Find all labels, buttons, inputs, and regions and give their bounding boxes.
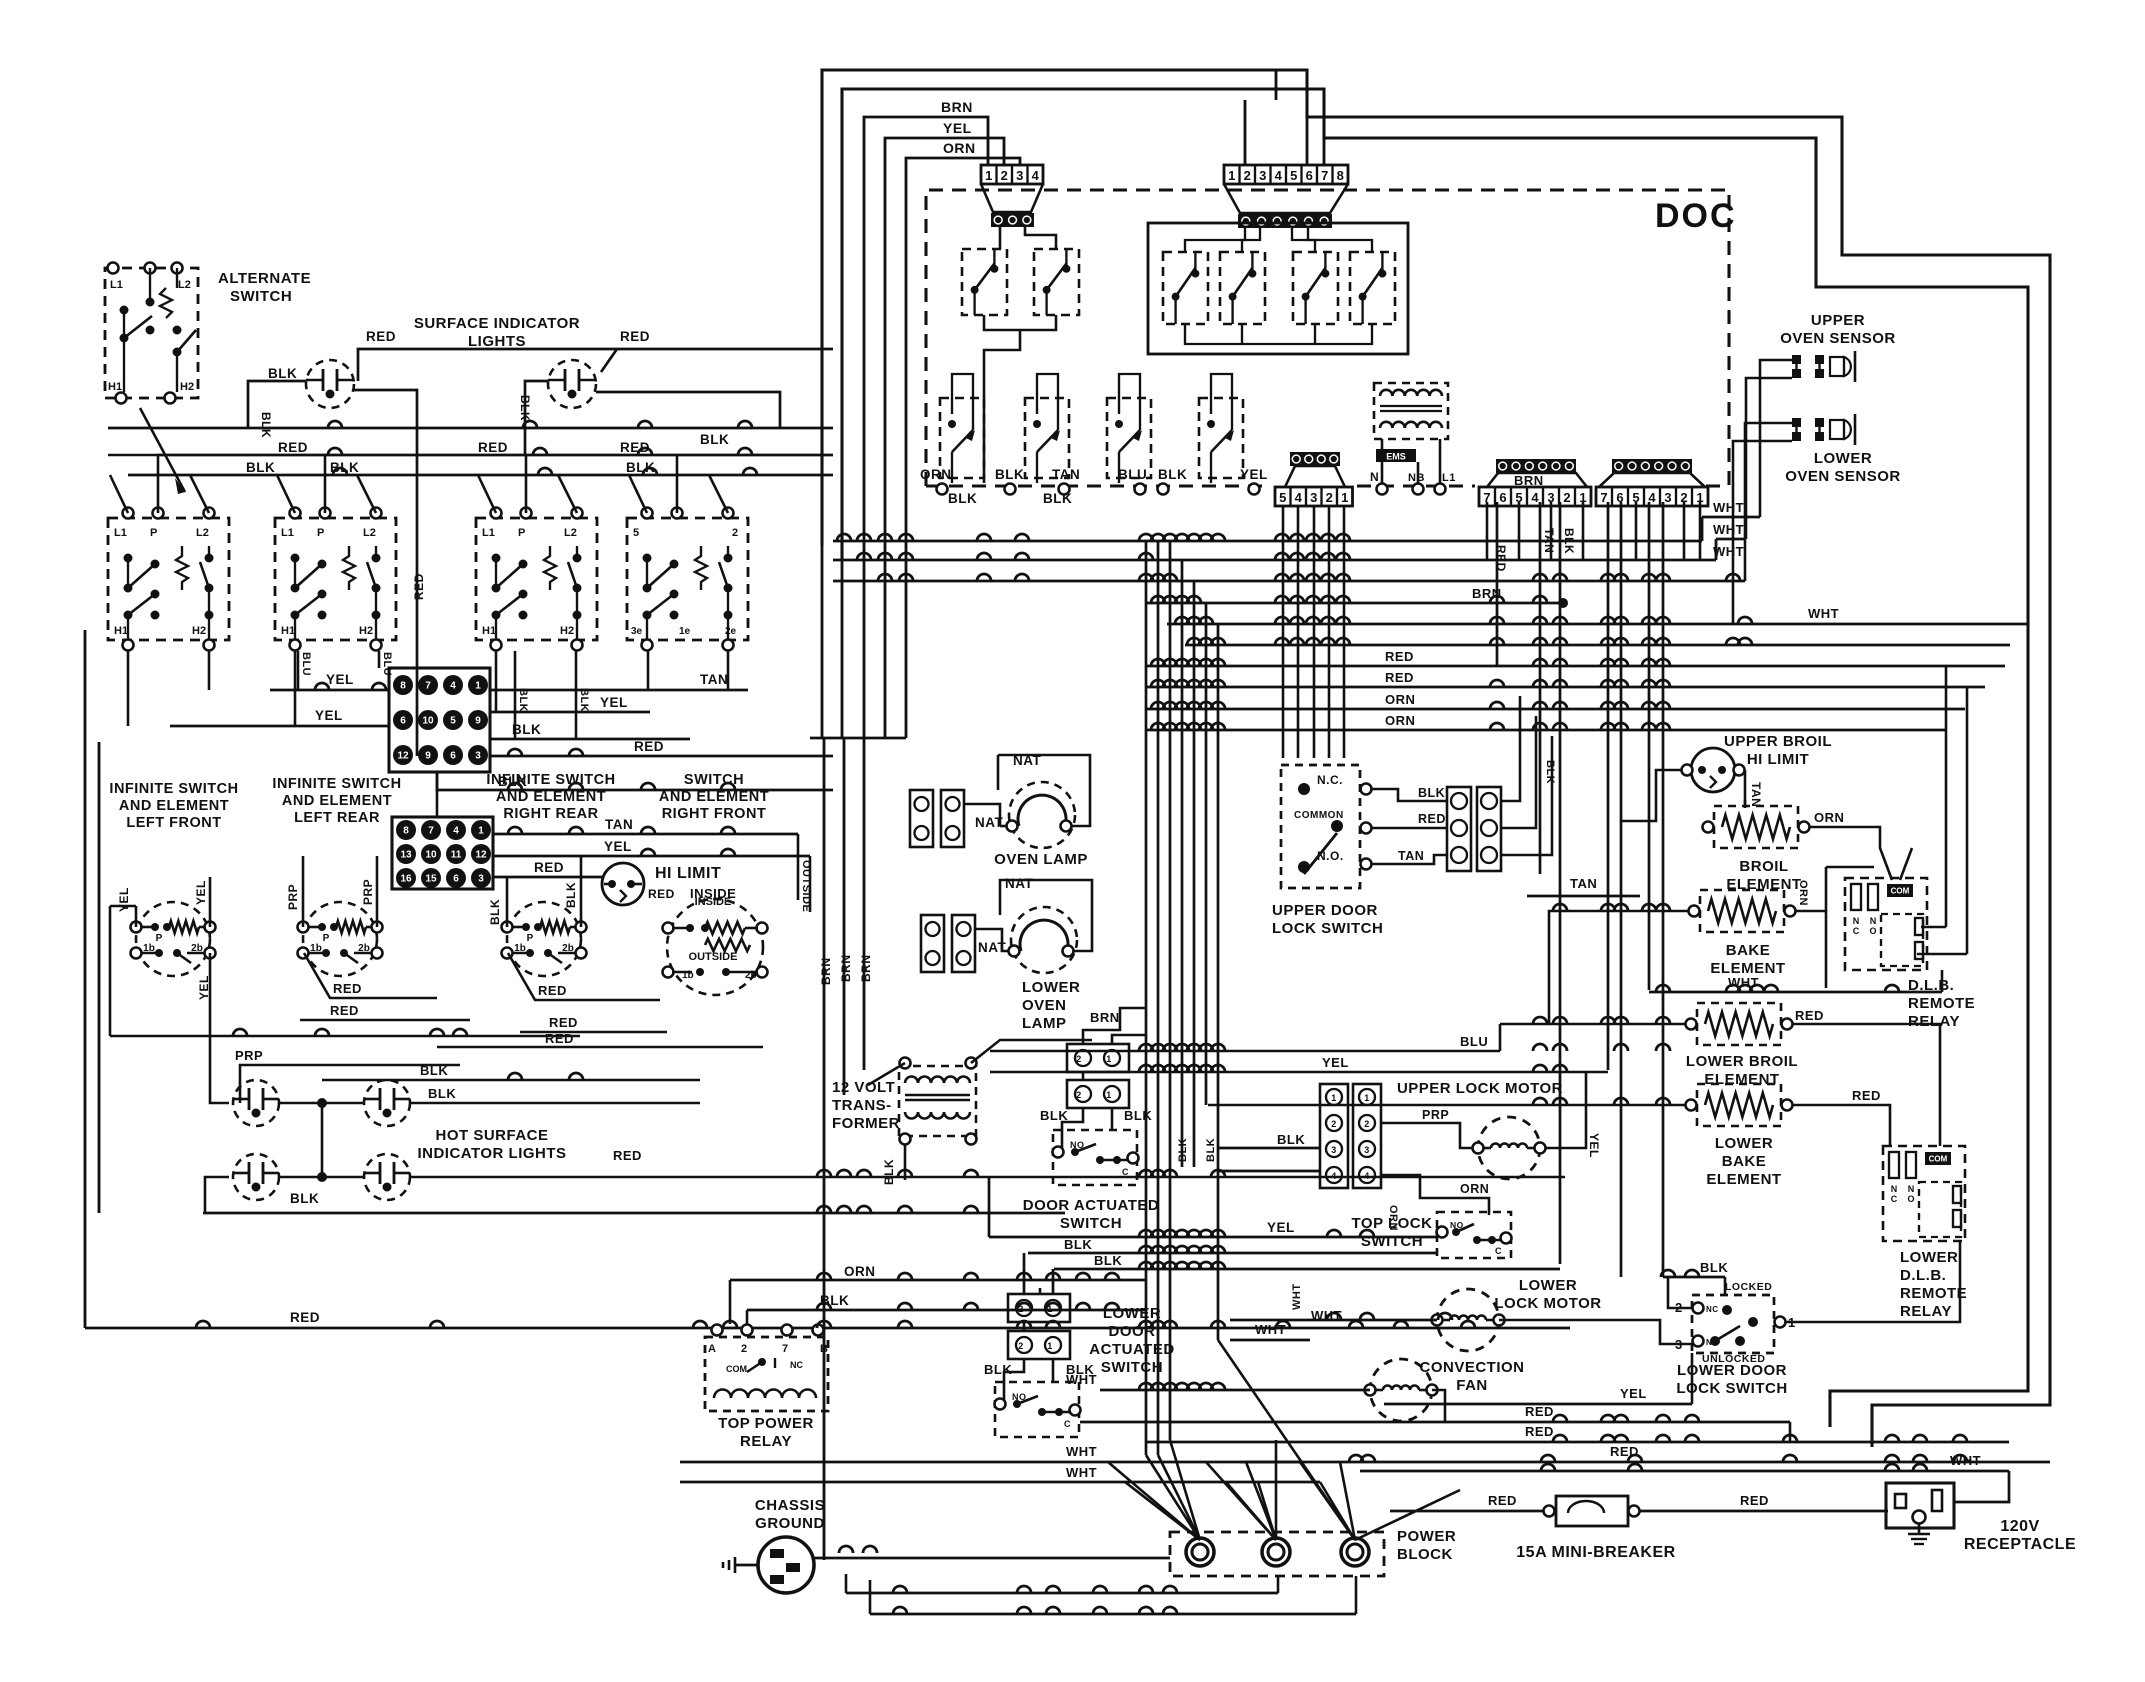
arrow from alternate switch	[140, 408, 185, 492]
svg-text:COMMON: COMMON	[1294, 810, 1344, 821]
svg-text:BLK: BLK	[1177, 1138, 1189, 1162]
wire ORN bus 2	[1146, 729, 1945, 732]
svg-text:RED: RED	[545, 1031, 574, 1046]
svg-text:INDICATOR LIGHTS: INDICATOR LIGHTS	[417, 1145, 566, 1162]
wire RED bus 2	[1146, 686, 1985, 689]
svg-text:RED: RED	[648, 887, 675, 901]
svg-text:LOWER: LOWER	[1814, 450, 1872, 467]
svg-text:LOCK MOTOR: LOCK MOTOR	[1494, 1295, 1601, 1312]
svg-text:LOCK SWITCH: LOCK SWITCH	[1272, 920, 1383, 937]
hi limit switch	[602, 863, 644, 905]
svg-text:ALTERNATE: ALTERNATE	[218, 270, 311, 287]
svg-text:7: 7	[1600, 490, 1607, 505]
svg-text:HI LIMIT: HI LIMIT	[655, 865, 721, 882]
svg-text:UPPER DOOR: UPPER DOOR	[1272, 902, 1378, 919]
surface indicator light 1	[306, 360, 354, 408]
svg-text:SWITCH: SWITCH	[230, 288, 292, 305]
svg-text:BLK: BLK	[1094, 1253, 1122, 1268]
svg-text:N: N	[1891, 1184, 1898, 1194]
hot surface light 2	[364, 1080, 410, 1126]
quick connect block upper	[389, 668, 490, 772]
svg-text:L2: L2	[564, 527, 577, 539]
svg-text:NO: NO	[1070, 1140, 1085, 1150]
alternate switch dashed box	[105, 268, 198, 398]
svg-text:1: 1	[1106, 1090, 1112, 1100]
wire BRN risers	[823, 738, 826, 1560]
svg-text:BLK: BLK	[290, 1191, 319, 1206]
svg-text:1: 1	[1047, 1341, 1053, 1351]
wire RED under RR	[508, 953, 660, 1000]
svg-text:RIGHT REAR: RIGHT REAR	[503, 806, 598, 822]
wires transformer	[844, 1040, 905, 1058]
wire TAN top	[492, 833, 798, 836]
wire left edge drop	[108, 454, 157, 457]
upper lock motor	[1478, 1117, 1540, 1179]
wire PRP	[240, 1065, 460, 1103]
infinite switch left rear symbol	[303, 902, 377, 976]
svg-text:3: 3	[1364, 1145, 1370, 1155]
wires lower door lock switch	[1668, 1277, 1692, 1308]
svg-text:O: O	[1907, 1194, 1914, 1204]
svg-text:P: P	[527, 933, 534, 944]
svg-text:RED: RED	[538, 983, 567, 998]
wire BLK right	[490, 738, 690, 741]
svg-text:BLK: BLK	[420, 1063, 448, 1078]
svg-text:BRN: BRN	[819, 958, 833, 986]
svg-text:5: 5	[1279, 490, 1286, 505]
wire WHT 1340	[1230, 1339, 1830, 1341]
svg-text:3: 3	[1664, 490, 1671, 505]
wire BLK vertical	[1559, 502, 1562, 1264]
relay K5 in DOC	[1293, 252, 1338, 324]
svg-text:LEFT FRONT: LEFT FRONT	[126, 815, 221, 831]
svg-text:BLK: BLK	[1277, 1132, 1305, 1147]
svg-text:L1: L1	[482, 527, 495, 539]
svg-text:7: 7	[1321, 168, 1328, 183]
svg-text:BLK: BLK	[517, 688, 529, 712]
stub wires to switch terminals	[123, 508, 134, 519]
wire BRN riser from control	[864, 117, 988, 575]
svg-text:GROUND: GROUND	[755, 1515, 825, 1532]
svg-text:FORMER: FORMER	[832, 1115, 900, 1132]
wires top power relay	[717, 1294, 1146, 1324]
svg-text:1: 1	[478, 826, 484, 837]
svg-text:NO: NO	[1706, 1338, 1719, 1347]
svg-text:RED: RED	[613, 1148, 642, 1163]
svg-text:WHT: WHT	[1713, 522, 1744, 537]
svg-text:SWITCH: SWITCH	[1361, 1233, 1423, 1250]
dlb remote relay lower	[1883, 1146, 1965, 1241]
wire BLK bus 428	[108, 427, 833, 430]
svg-text:2: 2	[1001, 168, 1008, 183]
svg-text:TAN: TAN	[1749, 782, 1763, 807]
door actuated switch	[1053, 1130, 1137, 1185]
svg-text:BLK: BLK	[1064, 1237, 1092, 1252]
svg-text:WHT: WHT	[1066, 1465, 1097, 1480]
svg-text:2b: 2b	[745, 970, 757, 981]
vertical harness bundle center	[1145, 541, 1148, 1455]
svg-text:WHT: WHT	[1713, 500, 1744, 515]
svg-text:L1: L1	[110, 279, 123, 291]
svg-text:RED: RED	[634, 739, 664, 754]
svg-text:C: C	[1891, 1194, 1898, 1204]
svg-text:ELEMENT: ELEMENT	[1706, 1171, 1781, 1188]
svg-text:PRP: PRP	[235, 1048, 263, 1063]
svg-text:RIGHT FRONT: RIGHT FRONT	[662, 806, 767, 822]
svg-text:5: 5	[450, 716, 456, 727]
wire hops on buses	[837, 534, 851, 541]
relay K10 in DOC lower row	[1199, 398, 1243, 478]
svg-text:BLOCK: BLOCK	[1397, 1546, 1453, 1563]
svg-text:A: A	[708, 1343, 716, 1355]
svg-text:YEL: YEL	[1267, 1220, 1295, 1235]
svg-text:BRN: BRN	[839, 955, 853, 983]
svg-text:YEL: YEL	[1322, 1055, 1349, 1070]
svg-text:ORN: ORN	[1460, 1182, 1489, 1196]
connector P3 5-1	[1285, 466, 1345, 487]
svg-text:2: 2	[1563, 490, 1570, 505]
svg-text:2: 2	[732, 527, 738, 539]
svg-text:ORN: ORN	[1797, 880, 1809, 906]
wire OUTSIDE riser	[797, 834, 800, 900]
wire RED under LR	[304, 953, 437, 998]
12 volt transformer	[899, 1066, 976, 1136]
svg-text:BLK: BLK	[1562, 528, 1576, 554]
svg-text:TAN: TAN	[1570, 876, 1597, 891]
svg-text:CHASSIS: CHASSIS	[755, 1497, 825, 1514]
lower broil element	[1697, 1003, 1781, 1045]
svg-text:COM: COM	[1891, 887, 1910, 896]
wires door actuated switch	[1082, 1072, 1085, 1080]
svg-text:NAT: NAT	[1005, 876, 1033, 891]
svg-text:LAMP: LAMP	[1022, 1015, 1067, 1032]
svg-text:4: 4	[1531, 490, 1539, 505]
svg-text:P: P	[150, 527, 157, 539]
svg-text:2: 2	[1326, 490, 1333, 505]
wire YEL bus	[990, 1071, 1608, 1074]
wires chassis ground	[814, 1564, 1180, 1566]
svg-text:COM: COM	[726, 1364, 747, 1374]
svg-text:BROIL: BROIL	[1739, 858, 1788, 875]
svg-text:3: 3	[475, 751, 481, 762]
svg-text:8: 8	[400, 681, 406, 692]
svg-text:CONVECTION: CONVECTION	[1419, 1359, 1524, 1376]
svg-text:4: 4	[450, 681, 456, 692]
wires lower door actuated	[1023, 1322, 1026, 1331]
relay bank bottom links	[1185, 324, 1372, 344]
wire RED rows lower right	[1080, 1421, 1790, 1424]
lower oven sensor	[1792, 418, 1801, 427]
svg-text:BLK: BLK	[820, 1293, 849, 1308]
relay K2 in DOC	[1034, 249, 1079, 315]
svg-text:3: 3	[1675, 1337, 1683, 1352]
svg-text:H2: H2	[180, 381, 194, 393]
svg-text:L1: L1	[114, 527, 127, 539]
svg-text:BLU: BLU	[1118, 467, 1147, 482]
svg-text:N.C.: N.C.	[1317, 773, 1343, 787]
svg-text:BAKE: BAKE	[1722, 1153, 1767, 1170]
svg-text:H2: H2	[192, 625, 206, 637]
svg-text:UPPER LOCK MOTOR: UPPER LOCK MOTOR	[1397, 1080, 1563, 1097]
wires sensors to WHT	[1760, 360, 1792, 517]
svg-text:BLK: BLK	[518, 395, 532, 421]
wires lower lock motor	[1230, 1319, 1437, 1322]
wire WHT long bus	[1167, 623, 2028, 626]
svg-text:6: 6	[400, 716, 406, 727]
svg-text:RED: RED	[1494, 545, 1508, 572]
svg-text:DOOR: DOOR	[1109, 1323, 1156, 1340]
wire BLU bus	[990, 1050, 1691, 1052]
svg-text:RED: RED	[1488, 1493, 1517, 1508]
svg-text:6: 6	[453, 874, 459, 885]
ground stem	[735, 1564, 758, 1567]
svg-text:H1: H1	[482, 625, 496, 637]
svg-text:WHT: WHT	[1808, 606, 1839, 621]
wire fan into power block	[1108, 1462, 1200, 1540]
svg-text:ACTUATED: ACTUATED	[1089, 1341, 1174, 1358]
wire long bus 645	[1185, 644, 2010, 647]
svg-text:BLK: BLK	[512, 722, 541, 737]
svg-text:1: 1	[1331, 1093, 1337, 1103]
svg-text:WHT: WHT	[1713, 544, 1744, 559]
svg-text:OVEN: OVEN	[1022, 997, 1067, 1014]
wires lower broil	[1500, 1024, 1685, 1051]
svg-text:13: 13	[400, 850, 412, 861]
svg-text:1: 1	[1228, 168, 1235, 183]
svg-text:RELAY: RELAY	[1908, 1013, 1960, 1030]
svg-text:YEL: YEL	[117, 887, 131, 912]
wires strip2 up	[1501, 696, 1520, 801]
svg-text:BLU: BLU	[1460, 1034, 1488, 1049]
svg-text:UPPER: UPPER	[1811, 312, 1865, 329]
svg-text:4: 4	[1275, 168, 1283, 183]
wire BLU vertical 2	[378, 651, 381, 668]
svg-text:N: N	[1908, 1184, 1915, 1194]
lower bake element	[1697, 1084, 1781, 1126]
svg-text:RED: RED	[620, 329, 650, 344]
wire YEL bottom	[1384, 1403, 1692, 1406]
surface switch right front	[627, 518, 748, 640]
svg-text:UPPER BROIL: UPPER BROIL	[1724, 733, 1832, 750]
svg-text:WHT: WHT	[1255, 1322, 1286, 1337]
svg-text:4: 4	[453, 826, 459, 837]
svg-text:NB: NB	[1408, 472, 1425, 484]
svg-text:YEL: YEL	[600, 695, 628, 710]
svg-text:TAN: TAN	[605, 817, 633, 832]
svg-text:BLK: BLK	[700, 432, 729, 447]
svg-text:2: 2	[1244, 168, 1251, 183]
wires oven lamp	[1000, 825, 1006, 828]
svg-text:BLK: BLK	[1124, 1108, 1152, 1123]
stub wires from P4 P5 pins	[1486, 502, 1489, 560]
lower door actuated terminals	[1008, 1294, 1070, 1322]
svg-text:4: 4	[1032, 168, 1040, 183]
wire RED bus above switches	[157, 454, 833, 457]
svg-text:BLU: BLU	[300, 652, 312, 676]
svg-text:LOWER DOOR: LOWER DOOR	[1677, 1362, 1787, 1379]
svg-text:BLK: BLK	[268, 366, 297, 381]
wire WHT to receptacle	[1360, 1470, 2009, 1473]
svg-text:NC: NC	[1706, 1305, 1719, 1314]
relay bank box in DOC	[1148, 223, 1408, 354]
wire RED right bus	[437, 1046, 763, 1049]
svg-text:REMOTE: REMOTE	[1908, 995, 1975, 1012]
svg-text:SWITCH: SWITCH	[1101, 1359, 1163, 1376]
svg-text:TRANS-: TRANS-	[832, 1097, 892, 1114]
svg-text:OVEN LAMP: OVEN LAMP	[994, 851, 1088, 868]
svg-text:PRP: PRP	[361, 879, 375, 905]
wire BLK hot2	[409, 1102, 700, 1105]
svg-text:LOCKED: LOCKED	[1725, 1281, 1772, 1293]
wire ORN riser from control	[906, 158, 1020, 615]
svg-text:7: 7	[782, 1343, 789, 1355]
surface switch left front	[108, 518, 229, 640]
svg-text:5: 5	[1290, 168, 1297, 183]
svg-text:BLK: BLK	[1700, 1260, 1728, 1275]
svg-text:3: 3	[1331, 1145, 1337, 1155]
svg-text:BLK: BLK	[948, 491, 977, 506]
wire TAN vertical	[1539, 502, 1542, 874]
svg-text:H1: H1	[114, 625, 128, 637]
svg-text:L2: L2	[196, 527, 209, 539]
verticals from switch row to grid	[127, 651, 130, 726]
svg-text:NO: NO	[1450, 1220, 1464, 1230]
svg-text:LOWER: LOWER	[1715, 1135, 1773, 1152]
svg-text:BLK: BLK	[259, 412, 273, 438]
wire TAN	[490, 689, 748, 692]
svg-text:RELAY: RELAY	[1900, 1303, 1952, 1320]
wire BLU vertical 1	[297, 651, 300, 690]
dlb relay outputs	[1921, 926, 1946, 929]
svg-text:1: 1	[985, 168, 992, 183]
svg-text:YEL: YEL	[943, 120, 972, 136]
svg-text:5: 5	[633, 527, 639, 539]
wire WHT bus 1	[833, 540, 1702, 543]
relay K8 in DOC lower row	[1025, 398, 1069, 478]
svg-text:AND ELEMENT: AND ELEMENT	[496, 789, 606, 805]
svg-text:HI LIMIT: HI LIMIT	[1747, 751, 1809, 768]
svg-text:4: 4	[1364, 1171, 1370, 1181]
svg-text:DOOR ACTUATED: DOOR ACTUATED	[1023, 1197, 1160, 1214]
svg-text:1: 1	[1364, 1093, 1370, 1103]
connector P2 shell	[1224, 184, 1348, 213]
svg-text:BLK: BLK	[488, 899, 502, 925]
svg-text:L2: L2	[363, 527, 376, 539]
svg-text:8: 8	[1337, 168, 1344, 183]
svg-text:2e: 2e	[725, 626, 737, 637]
svg-text:YEL: YEL	[326, 672, 354, 687]
svg-text:P: P	[323, 933, 330, 944]
wire YEL grid	[270, 689, 389, 692]
svg-text:N: N	[1870, 916, 1877, 926]
svg-text:6: 6	[1306, 168, 1313, 183]
svg-text:AND ELEMENT: AND ELEMENT	[282, 793, 392, 809]
svg-text:TAN: TAN	[1542, 528, 1556, 553]
svg-text:P: P	[156, 933, 163, 944]
wire L1 outer loop top/right	[822, 70, 2050, 1447]
svg-text:ORN: ORN	[1385, 692, 1415, 707]
lower oven lamp terminal blocks	[921, 915, 944, 972]
wires convection fan	[1100, 1389, 1370, 1392]
wire BLK v2	[575, 651, 578, 739]
svg-text:INFINITE SWITCH: INFINITE SWITCH	[272, 776, 401, 792]
svg-text:BLU: BLU	[381, 652, 393, 676]
wires lower relays to DOC terminals	[951, 478, 953, 483]
svg-text:C: C	[1853, 926, 1860, 936]
svg-text:2: 2	[741, 1343, 748, 1355]
svg-text:LIGHTS: LIGHTS	[468, 333, 526, 350]
svg-text:RED: RED	[1525, 1404, 1554, 1419]
svg-text:2: 2	[1331, 1119, 1337, 1129]
wires P3 pins downward	[1282, 506, 1285, 758]
svg-text:11: 11	[451, 850, 462, 861]
svg-text:4: 4	[1331, 1171, 1337, 1181]
svg-text:BRN: BRN	[1514, 473, 1544, 488]
svg-text:WHT: WHT	[1066, 1444, 1097, 1459]
svg-text:120V: 120V	[2000, 1518, 2039, 1535]
wires bake element	[1549, 911, 1688, 1024]
wires broil element	[1744, 800, 1747, 806]
wire YEL right	[490, 711, 650, 714]
hot surface light 1	[233, 1080, 279, 1126]
connector P1 1-4	[981, 165, 1043, 184]
svg-text:2: 2	[1076, 1054, 1082, 1064]
wire ORN bus 1	[1146, 708, 1965, 711]
wires hi limit	[1540, 748, 1687, 764]
quick connect block lower	[392, 817, 493, 889]
svg-text:BLK: BLK	[1418, 786, 1445, 800]
wire K1-K2 bottom link	[984, 315, 1056, 330]
svg-text:EMS: EMS	[1386, 452, 1406, 462]
wire BLK v1	[514, 651, 517, 739]
wire BLK light2	[525, 381, 548, 455]
relay K7 in DOC lower row	[940, 398, 984, 478]
svg-text:INFINITE SWITCH: INFINITE SWITCH	[486, 772, 615, 788]
svg-text:REMOTE: REMOTE	[1900, 1285, 1967, 1302]
door actuated switch terminals	[1067, 1044, 1129, 1072]
wire RED long bottom	[85, 1327, 1570, 1330]
svg-text:H1: H1	[108, 381, 122, 393]
svg-text:FAN: FAN	[1456, 1377, 1488, 1394]
svg-text:L1: L1	[281, 527, 294, 539]
svg-text:HOT SURFACE: HOT SURFACE	[435, 1127, 548, 1144]
svg-text:RECEPTACLE: RECEPTACLE	[1964, 1536, 2076, 1553]
15A mini breaker	[1556, 1496, 1628, 1526]
wire hop cluster	[810, 737, 906, 740]
surface indicator light 2	[548, 360, 596, 408]
svg-text:TOP POWER: TOP POWER	[718, 1415, 814, 1432]
svg-text:YEL: YEL	[1240, 467, 1268, 482]
svg-text:ORN: ORN	[1385, 713, 1415, 728]
svg-text:TAN: TAN	[1398, 849, 1424, 863]
wire RED mid	[520, 1031, 667, 1034]
relay K3 in DOC	[1163, 252, 1208, 324]
svg-text:BLK: BLK	[578, 688, 590, 712]
wires hot surface lights	[279, 1102, 364, 1105]
wire RED to breaker	[1390, 1510, 1543, 1513]
wire YEL grid2	[170, 725, 389, 728]
wire RED top link	[358, 349, 833, 381]
bake element	[1700, 890, 1784, 932]
svg-text:7: 7	[425, 681, 431, 692]
svg-text:BLK: BLK	[984, 1362, 1012, 1377]
svg-text:YEL: YEL	[604, 839, 632, 854]
svg-text:BLK: BLK	[246, 460, 275, 475]
surface switch right rear	[476, 518, 597, 640]
svg-text:10: 10	[422, 716, 434, 727]
svg-text:RED: RED	[1610, 1444, 1639, 1459]
svg-text:BLK: BLK	[1205, 1138, 1217, 1162]
